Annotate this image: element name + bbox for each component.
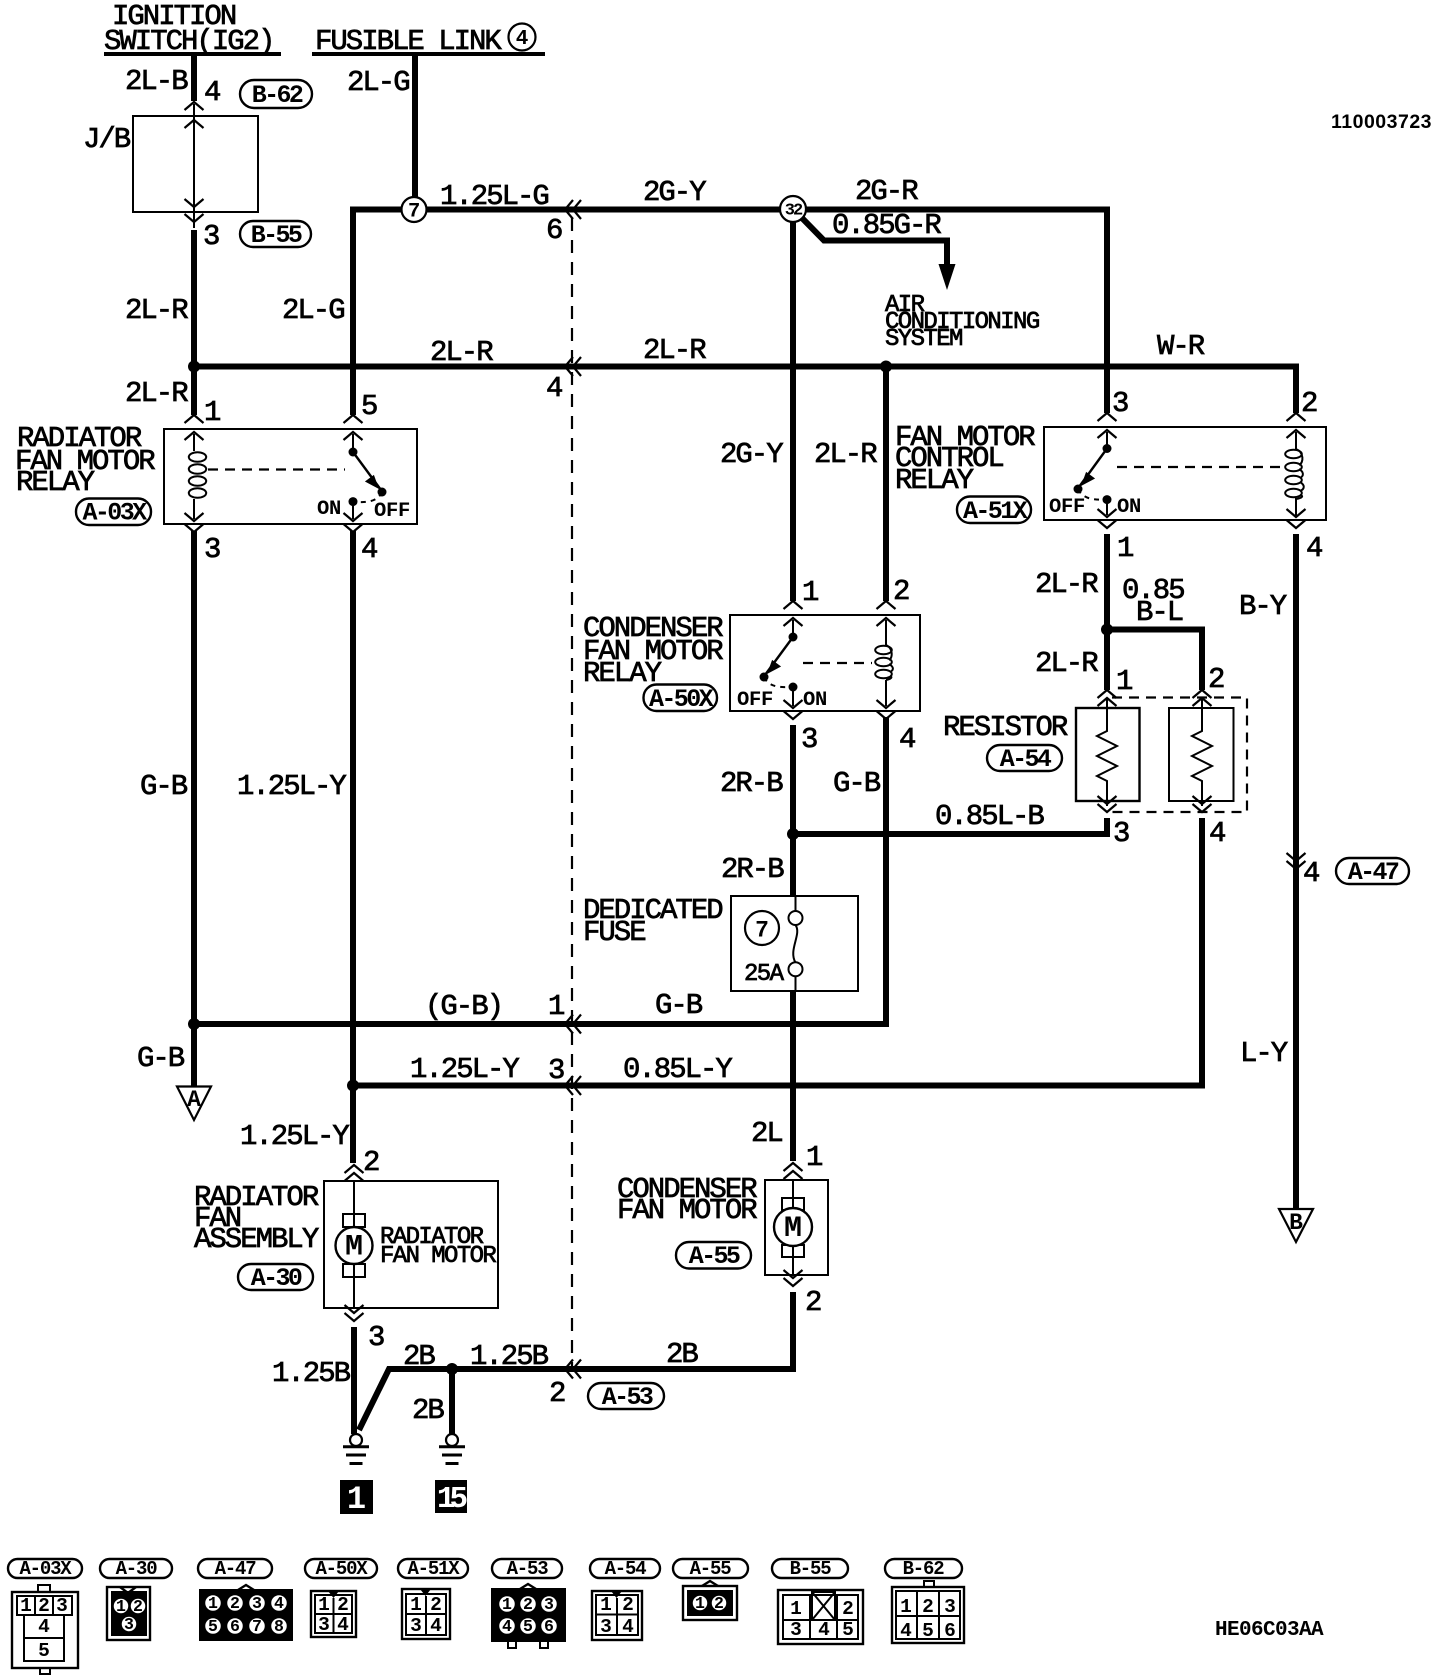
svg-text:0.85G-R: 0.85G-R [832, 209, 941, 242]
svg-text:A-30: A-30 [116, 1558, 158, 1580]
svg-text:2: 2 [1301, 387, 1317, 420]
svg-text:3: 3 [944, 1596, 956, 1618]
svg-text:FUSE: FUSE [583, 916, 645, 949]
svg-text:6: 6 [544, 1617, 554, 1636]
svg-text:B-L: B-L [1136, 596, 1183, 629]
svg-text:2: 2 [805, 1286, 821, 1319]
svg-text:4: 4 [818, 1619, 830, 1641]
svg-text:5: 5 [842, 1619, 854, 1641]
svg-text:G-B: G-B [655, 989, 703, 1022]
svg-text:4: 4 [430, 1615, 442, 1637]
svg-text:B-55: B-55 [251, 221, 302, 250]
svg-text:2R-B: 2R-B [721, 853, 784, 886]
svg-text:1: 1 [548, 990, 564, 1023]
svg-text:HE06C03AA: HE06C03AA [1215, 1619, 1324, 1642]
svg-text:3: 3 [410, 1615, 422, 1637]
svg-text:2: 2 [842, 1598, 854, 1620]
svg-text:2: 2 [38, 1595, 50, 1617]
svg-text:A-54: A-54 [1000, 745, 1052, 774]
svg-text:4: 4 [38, 1616, 50, 1638]
svg-text:A-51X: A-51X [963, 497, 1028, 526]
svg-text:5: 5 [208, 1617, 218, 1636]
svg-text:3: 3 [1113, 817, 1129, 850]
svg-text:M: M [784, 1212, 802, 1246]
svg-text:32: 32 [785, 202, 803, 221]
svg-text:1: 1 [790, 1598, 802, 1620]
svg-text:1: 1 [1116, 665, 1132, 698]
svg-text:RELAY: RELAY [895, 464, 974, 497]
svg-text:2: 2 [337, 1594, 349, 1616]
svg-text:A-55: A-55 [690, 1558, 732, 1580]
svg-text:ON: ON [317, 498, 341, 521]
svg-text:1: 1 [695, 1594, 705, 1613]
svg-text:ASSEMBLY: ASSEMBLY [194, 1223, 319, 1256]
svg-text:1: 1 [1117, 532, 1133, 565]
svg-text:5: 5 [361, 390, 377, 423]
svg-text:2L-R: 2L-R [430, 336, 493, 369]
svg-text:3: 3 [600, 1616, 612, 1638]
svg-text:4: 4 [899, 723, 915, 756]
svg-text:FAN MOTOR: FAN MOTOR [380, 1243, 496, 1270]
svg-text:2G-Y: 2G-Y [720, 438, 783, 471]
svg-text:1: 1 [502, 1595, 512, 1614]
svg-text:7: 7 [755, 918, 769, 944]
svg-text:4: 4 [204, 76, 220, 109]
svg-text:1: 1 [802, 576, 818, 609]
svg-text:110003723: 110003723 [1331, 111, 1432, 133]
svg-text:(G-B): (G-B) [425, 990, 502, 1023]
svg-text:OFF: OFF [1049, 496, 1085, 519]
svg-text:1: 1 [20, 1595, 32, 1617]
svg-text:B: B [1289, 1210, 1303, 1236]
svg-text:A-47: A-47 [1348, 858, 1399, 887]
svg-text:J/B: J/B [83, 123, 131, 156]
svg-text:15: 15 [437, 1482, 467, 1517]
svg-text:1.25B: 1.25B [272, 1357, 351, 1390]
svg-text:A-50X: A-50X [649, 685, 714, 714]
svg-text:4: 4 [546, 372, 562, 405]
svg-text:ON: ON [803, 689, 827, 712]
svg-text:OFF: OFF [737, 689, 773, 712]
svg-text:3: 3 [204, 533, 220, 566]
svg-text:2L-R: 2L-R [125, 294, 188, 327]
svg-text:G-B: G-B [833, 767, 881, 800]
svg-text:1: 1 [347, 1481, 366, 1518]
svg-text:B-Y: B-Y [1239, 590, 1287, 623]
svg-text:G-B: G-B [140, 770, 188, 803]
svg-text:4: 4 [1209, 817, 1225, 850]
svg-text:3: 3 [548, 1054, 564, 1087]
svg-text:2L-R: 2L-R [1035, 568, 1098, 601]
svg-text:3: 3 [544, 1595, 554, 1614]
svg-text:6: 6 [944, 1620, 956, 1642]
svg-text:4: 4 [337, 1614, 349, 1636]
svg-text:2L-R: 2L-R [814, 438, 877, 471]
svg-text:A-03X: A-03X [19, 1558, 72, 1580]
svg-text:ON: ON [1117, 496, 1141, 519]
svg-text:4: 4 [1303, 857, 1319, 890]
svg-text:5: 5 [922, 1620, 934, 1642]
svg-text:2: 2 [523, 1595, 533, 1614]
svg-text:1: 1 [600, 1594, 612, 1616]
svg-text:2L-B: 2L-B [125, 65, 188, 98]
svg-text:3: 3 [124, 1615, 134, 1634]
svg-text:A-47: A-47 [215, 1558, 257, 1580]
svg-text:0.85L-B: 0.85L-B [935, 800, 1044, 833]
svg-text:1: 1 [204, 396, 220, 429]
svg-text:3: 3 [801, 723, 817, 756]
svg-text:7: 7 [252, 1617, 262, 1636]
svg-text:5: 5 [38, 1640, 50, 1662]
svg-text:2G-R: 2G-R [855, 175, 918, 208]
svg-text:1.25L-G: 1.25L-G [440, 180, 548, 213]
svg-text:5: 5 [523, 1617, 533, 1636]
svg-text:A: A [187, 1087, 201, 1113]
svg-text:B-55: B-55 [790, 1558, 832, 1580]
svg-text:2B: 2B [412, 1394, 444, 1427]
svg-text:6: 6 [546, 214, 562, 247]
svg-text:M: M [345, 1231, 363, 1265]
svg-text:B-62: B-62 [252, 81, 303, 110]
svg-text:2L-G: 2L-G [347, 66, 409, 99]
svg-text:1: 1 [806, 1141, 822, 1174]
svg-text:6: 6 [230, 1617, 240, 1636]
svg-text:4: 4 [502, 1617, 512, 1636]
svg-text:A-53: A-53 [507, 1558, 549, 1580]
svg-text:4: 4 [361, 533, 377, 566]
svg-text:2: 2 [922, 1596, 934, 1618]
svg-text:FAN MOTOR: FAN MOTOR [617, 1194, 757, 1227]
svg-text:2L-R: 2L-R [125, 377, 188, 410]
svg-text:1.25B: 1.25B [470, 1340, 549, 1373]
svg-text:2: 2 [549, 1377, 565, 1410]
svg-text:A-55: A-55 [689, 1242, 740, 1271]
svg-text:B-62: B-62 [903, 1558, 945, 1580]
svg-text:1: 1 [318, 1594, 330, 1616]
svg-text:2L-G: 2L-G [282, 294, 344, 327]
svg-text:A-30: A-30 [251, 1264, 302, 1293]
svg-text:SYSTEM: SYSTEM [885, 326, 962, 353]
svg-text:RELAY: RELAY [16, 466, 95, 499]
svg-text:4: 4 [516, 28, 529, 51]
svg-text:2B: 2B [403, 1340, 435, 1373]
svg-text:7: 7 [408, 201, 420, 224]
svg-text:1.25L-Y: 1.25L-Y [240, 1120, 349, 1153]
svg-text:3: 3 [368, 1321, 384, 1354]
svg-text:W-R: W-R [1157, 330, 1205, 363]
svg-text:A-54: A-54 [605, 1558, 647, 1580]
svg-text:2L-R: 2L-R [1035, 647, 1098, 680]
svg-text:8: 8 [274, 1617, 284, 1636]
svg-text:A-51X: A-51X [407, 1558, 460, 1580]
svg-text:1: 1 [208, 1594, 218, 1613]
svg-text:2: 2 [430, 1594, 442, 1616]
svg-text:2: 2 [893, 575, 909, 608]
svg-text:2: 2 [714, 1594, 724, 1613]
svg-text:2: 2 [133, 1597, 143, 1616]
svg-text:2: 2 [230, 1594, 240, 1613]
svg-text:2: 2 [1208, 663, 1224, 696]
svg-text:4: 4 [900, 1620, 912, 1642]
svg-text:3: 3 [318, 1614, 330, 1636]
svg-text:1: 1 [116, 1597, 126, 1616]
svg-text:1: 1 [900, 1596, 912, 1618]
svg-text:3: 3 [790, 1619, 802, 1641]
svg-text:1.25L-Y: 1.25L-Y [237, 770, 346, 803]
svg-text:2L-R: 2L-R [643, 334, 706, 367]
svg-text:0.85L-Y: 0.85L-Y [623, 1053, 732, 1086]
svg-text:2R-B: 2R-B [720, 767, 783, 800]
svg-text:2B: 2B [666, 1338, 698, 1371]
svg-text:A-03X: A-03X [82, 499, 147, 528]
svg-text:3: 3 [56, 1595, 68, 1617]
svg-text:25A: 25A [744, 961, 785, 988]
svg-text:A-53: A-53 [602, 1383, 653, 1412]
svg-text:1: 1 [410, 1594, 422, 1616]
svg-text:L-Y: L-Y [1240, 1037, 1288, 1070]
svg-text:2: 2 [622, 1594, 634, 1616]
svg-text:3: 3 [203, 220, 219, 253]
svg-text:1.25L-Y: 1.25L-Y [410, 1053, 519, 1086]
svg-text:G-B: G-B [137, 1042, 185, 1075]
svg-text:4: 4 [622, 1616, 634, 1638]
svg-text:4: 4 [1306, 532, 1322, 565]
svg-text:2L: 2L [751, 1117, 782, 1150]
svg-text:3: 3 [252, 1594, 262, 1613]
svg-text:A-50X: A-50X [315, 1558, 368, 1580]
svg-text:RESISTOR: RESISTOR [943, 711, 1068, 744]
svg-text:OFF: OFF [374, 500, 410, 523]
svg-text:3: 3 [1112, 387, 1128, 420]
svg-text:2G-Y: 2G-Y [643, 176, 706, 209]
svg-text:2: 2 [363, 1146, 379, 1179]
svg-text:4: 4 [274, 1594, 284, 1613]
